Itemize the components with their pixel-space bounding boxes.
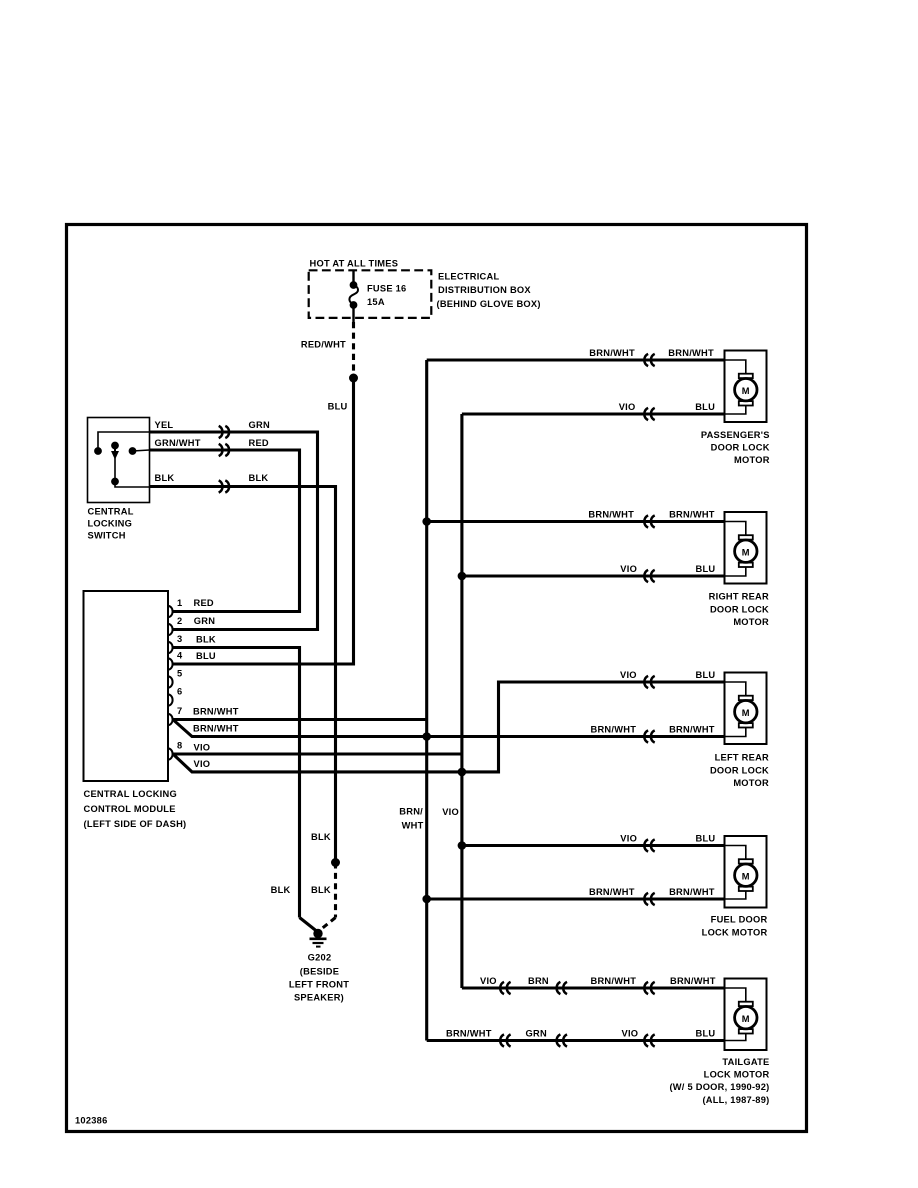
svg-text:LEFT REAR: LEFT REAR [715, 753, 769, 763]
wire YEL/GRN from switch to module pin 2 [150, 432, 318, 630]
svg-text:BRN/WHT: BRN/WHT [193, 706, 239, 716]
svg-text:BRN/WHT: BRN/WHT [589, 348, 635, 358]
svg-text:RIGHT REAR: RIGHT REAR [709, 592, 769, 602]
svg-text:BLU: BLU [695, 402, 715, 412]
connector in YEL/GRN wire [219, 426, 223, 438]
svg-text:LOCK MOTOR: LOCK MOTOR [702, 927, 768, 937]
motor: fuel door lock box [725, 836, 767, 908]
connector in GRN-WHT/RED wire [219, 444, 223, 456]
svg-text:MOTOR: MOTOR [733, 778, 769, 788]
switch contact right [133, 450, 150, 451]
motor: passenger's door lock internal wiring [725, 360, 746, 375]
svg-text:7: 7 [177, 706, 182, 716]
wire BRN-WHT/GRN/VIO/BLU to tailgate motor [427, 1039, 725, 1042]
svg-text:3: 3 [177, 634, 182, 644]
svg-text:1: 1 [177, 598, 182, 608]
svg-text:BLU: BLU [696, 834, 716, 844]
module pin 1 [168, 606, 173, 617]
junction dot VIO bus to right rear [458, 572, 466, 580]
svg-text:VIO: VIO [620, 670, 637, 680]
wire BLK module pin 3 to ground [173, 648, 300, 918]
wire BRN/WHT second from pin 7 to left rear motor [174, 721, 725, 737]
svg-text:MOTOR: MOTOR [734, 455, 770, 465]
svg-text:RED: RED [249, 438, 269, 448]
svg-text:BLU: BLU [696, 670, 716, 680]
svg-text:(BESIDE: (BESIDE [300, 966, 339, 976]
svg-text:BRN/WHT: BRN/WHT [669, 510, 715, 520]
svg-text:(LEFT SIDE OF DASH): (LEFT SIDE OF DASH) [84, 819, 187, 829]
motor: fuel door lock internal wiring [725, 846, 746, 861]
svg-text:CENTRAL LOCKING: CENTRAL LOCKING [84, 789, 177, 799]
svg-text:FUEL DOOR: FUEL DOOR [711, 915, 768, 925]
svg-text:HOT AT ALL TIMES: HOT AT ALL TIMES [310, 259, 399, 269]
motor: tailgate lock box [725, 979, 767, 1051]
svg-text:RED: RED [194, 598, 214, 608]
svg-text:BRN/WHT: BRN/WHT [589, 887, 635, 897]
svg-text:GRN: GRN [249, 420, 270, 430]
module pin 4 [168, 658, 173, 669]
svg-text:BLU: BLU [196, 651, 216, 661]
svg-text:DISTRIBUTION BOX: DISTRIBUTION BOX [438, 285, 531, 295]
svg-text:CENTRAL: CENTRAL [88, 506, 134, 516]
motor: passenger's door lock brush caps [739, 374, 753, 378]
svg-text:VIO: VIO [622, 1029, 639, 1039]
switch contact left [98, 432, 150, 451]
svg-text:BLU: BLU [328, 401, 348, 411]
motor: fuel door lock armature circle M [735, 864, 757, 886]
motor: right rear door lock armature circle M [735, 540, 757, 562]
fuse FUSE 16 15A [352, 271, 354, 285]
svg-text:VIO: VIO [194, 742, 211, 752]
svg-text:BLK: BLK [196, 634, 216, 644]
svg-text:6: 6 [177, 687, 182, 697]
svg-text:BRN/WHT: BRN/WHT [591, 976, 637, 986]
junction dot VIO bus to left rear riser [458, 768, 466, 776]
svg-text:M: M [742, 548, 750, 558]
wire BRN/WHT to passenger motor [427, 358, 725, 361]
svg-text:GRN: GRN [194, 616, 215, 626]
ground G202 symbol [314, 929, 322, 937]
module pin 5 [168, 676, 173, 687]
svg-text:VIO: VIO [619, 402, 636, 412]
svg-text:15A: 15A [367, 297, 385, 307]
svg-text:BLU: BLU [696, 564, 716, 574]
svg-text:BRN/WHT: BRN/WHT [669, 725, 715, 735]
svg-text:BLK: BLK [155, 473, 175, 483]
svg-text:BLU: BLU [696, 1029, 716, 1039]
svg-text:BRN: BRN [528, 976, 549, 986]
junction dot BRN/WHT bus to right rear [423, 518, 431, 526]
svg-text:BLK: BLK [311, 832, 331, 842]
svg-text:BRN/WHT: BRN/WHT [588, 510, 634, 520]
wire VIO/BRN/BRN-WHT to tailgate motor [462, 986, 725, 989]
svg-text:BLK: BLK [311, 885, 331, 895]
motor: fuel door lock brush caps [739, 859, 753, 863]
wire VIO vertical bus [460, 414, 463, 988]
wire BRN/WHT vertical bus [425, 360, 428, 1041]
svg-text:BLK: BLK [271, 885, 291, 895]
svg-text:4: 4 [177, 651, 183, 661]
svg-text:G202: G202 [308, 953, 332, 963]
module: central locking control module box [84, 591, 169, 781]
svg-text:VIO: VIO [620, 564, 637, 574]
motor: tailgate lock internal wiring [725, 988, 746, 1003]
svg-text:LOCKING: LOCKING [88, 518, 133, 528]
svg-text:8: 8 [177, 741, 182, 751]
svg-text:M: M [742, 708, 750, 718]
svg-text:SPEAKER): SPEAKER) [294, 992, 344, 1002]
svg-text:DOOR LOCK: DOOR LOCK [710, 604, 769, 614]
svg-text:BRN/WHT: BRN/WHT [669, 887, 715, 897]
svg-text:PASSENGER'S: PASSENGER'S [701, 430, 770, 440]
motor: passenger's door lock armature circle M [735, 379, 757, 401]
wire BLU vertical to module pin 4 [173, 378, 354, 664]
splice node on BLU wire [350, 374, 358, 382]
wire VIO/BLU to right rear motor [462, 574, 725, 577]
svg-text:MOTOR: MOTOR [733, 617, 769, 627]
junction dot BRN/WHT bus to fuel door [423, 895, 431, 903]
module pin 3 [168, 642, 173, 653]
svg-text:BRN/WHT: BRN/WHT [668, 348, 714, 358]
motor: right rear door lock brush caps [739, 535, 753, 539]
wire GRN-WHT/RED from switch to module pin 1 [150, 450, 300, 612]
wire RED module pin 1 [173, 610, 300, 613]
svg-text:(BEHIND GLOVE BOX): (BEHIND GLOVE BOX) [437, 299, 541, 309]
svg-text:RED/WHT: RED/WHT [301, 339, 346, 349]
junction dot VIO bus to fuel door [458, 842, 466, 850]
motor: passenger's door lock box [725, 351, 767, 423]
svg-text:5: 5 [177, 669, 182, 679]
svg-text:VIO: VIO [442, 807, 459, 817]
svg-text:M: M [742, 386, 750, 396]
svg-text:GRN/WHT: GRN/WHT [155, 438, 201, 448]
svg-text:BLK: BLK [249, 473, 269, 483]
svg-text:SWITCH: SWITCH [88, 530, 126, 540]
svg-text:102386: 102386 [75, 1115, 108, 1125]
svg-text:LEFT FRONT: LEFT FRONT [289, 979, 349, 989]
svg-text:(ALL, 1987-89): (ALL, 1987-89) [702, 1095, 769, 1105]
wire BRN/WHT to fuel door motor [427, 897, 725, 900]
wire VIO riser to left rear motor [462, 682, 725, 772]
wire BRN/WHT to right rear motor [427, 520, 725, 523]
svg-text:GRN: GRN [526, 1029, 547, 1039]
svg-text:BRN/WHT: BRN/WHT [446, 1029, 492, 1039]
svg-text:WHT: WHT [402, 820, 424, 830]
wire VIO second from pin 8 [174, 755, 462, 772]
motor: tailgate lock armature circle M [735, 1007, 757, 1029]
module pin 8 [168, 748, 173, 759]
module pin 7 [168, 714, 173, 725]
svg-text:2: 2 [177, 616, 182, 626]
svg-text:VIO: VIO [194, 759, 211, 769]
switch: central locking switch box [88, 418, 150, 503]
electrical distribution box (dashed) [309, 270, 432, 318]
svg-text:LOCK MOTOR: LOCK MOTOR [704, 1070, 770, 1080]
svg-text:BRN/WHT: BRN/WHT [670, 976, 716, 986]
svg-text:M: M [742, 1014, 750, 1024]
splice node on BLK wire [332, 859, 340, 867]
svg-text:(W/ 5 DOOR, 1990-92): (W/ 5 DOOR, 1990-92) [669, 1082, 769, 1092]
wire GRN module pin 2 [173, 628, 318, 631]
svg-text:CONTROL MODULE: CONTROL MODULE [84, 804, 176, 814]
svg-text:BRN/WHT: BRN/WHT [193, 724, 239, 734]
wire VIO/BLU to fuel door motor [462, 844, 725, 847]
svg-text:VIO: VIO [480, 976, 497, 986]
motor: right rear door lock internal wiring [725, 522, 746, 537]
svg-text:DOOR LOCK: DOOR LOCK [711, 442, 770, 452]
module pin 2 [168, 624, 173, 635]
motor: tailgate lock brush caps [739, 1002, 753, 1006]
svg-text:DOOR LOCK: DOOR LOCK [710, 765, 769, 775]
svg-text:ELECTRICAL: ELECTRICAL [438, 271, 499, 281]
motor: left rear door lock internal wiring [725, 682, 746, 697]
wire VIO module pin 8 [173, 752, 462, 755]
svg-text:BRN/WHT: BRN/WHT [591, 725, 637, 735]
svg-text:FUSE 16: FUSE 16 [367, 283, 406, 293]
svg-text:YEL: YEL [155, 420, 174, 430]
svg-text:VIO: VIO [620, 834, 637, 844]
switch common actuator [112, 442, 119, 449]
wire BRN/WHT module pin 7 to distribution bus [173, 718, 427, 721]
wire BLK dashed to ground [334, 863, 337, 918]
wire VIO/BLU to passenger motor [462, 412, 725, 415]
svg-text:TAILGATE: TAILGATE [722, 1057, 769, 1067]
svg-text:M: M [742, 872, 750, 882]
module pin 6 [168, 694, 173, 705]
wire BLK from switch to ground [150, 487, 336, 863]
wire BLK from pin 3 bend to ground [300, 918, 317, 932]
motor: left rear door lock box [725, 673, 767, 745]
motor: left rear door lock brush caps [739, 696, 753, 700]
motor: left rear door lock armature circle M [735, 701, 757, 723]
svg-text:BRN/: BRN/ [399, 807, 423, 817]
junction dot BRN/WHT at left rear wire [423, 733, 431, 741]
motor: right rear door lock box [725, 512, 767, 584]
wire RED/WHT (dashed) from fuse [352, 322, 355, 374]
connector in BLK wire [219, 480, 223, 492]
